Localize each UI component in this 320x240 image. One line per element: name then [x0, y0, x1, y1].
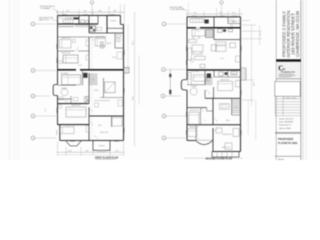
desk lower	[220, 104, 230, 110]
svg-text:DINING: DINING	[61, 88, 68, 90]
svg-text:Job no: 0206: Job no: 0206	[279, 128, 291, 130]
revision table	[275, 99, 301, 116]
fridge2 dark	[83, 73, 87, 78]
dresser right wall unit1	[236, 56, 241, 62]
svg-text:BEDROOM: BEDROOM	[222, 147, 231, 149]
svg-text:TO REMAIN: TO REMAIN	[40, 7, 51, 10]
svg-text:BEDROOM: BEDROOM	[72, 105, 81, 107]
grid bubble top right plan	[220, 1, 223, 4]
wall y124.8	[187, 124, 241, 126]
bed3	[189, 112, 199, 124]
wall x107 dark	[106, 15, 108, 33]
outer wall right main	[123, 24, 125, 140]
logo address micro lines	[279, 73, 294, 76]
row B	[162, 68, 166, 72]
stair3 side wall y115	[232, 114, 241, 116]
demising wall y27.8	[187, 27, 196, 29]
bottom dim text	[68, 151, 119, 153]
svg-text:SECOND FLOOR PLAN: SECOND FLOOR PLAN	[206, 157, 233, 160]
bed5 bottom right	[112, 118, 122, 127]
left grid bubble row A	[31, 22, 35, 26]
svg-text:PROPOSED: PROPOSED	[278, 137, 293, 141]
svg-text:8'-2": 8'-2"	[66, 11, 70, 13]
wall x111.5 bottom room	[111, 116, 113, 127]
closets on x89 wall	[86, 40, 89, 46]
wall x213 lower	[212, 98, 214, 125]
porch	[93, 141, 110, 151]
svg-text:9'-2": 9'-2"	[115, 151, 119, 153]
bath band wall y77	[214, 76, 241, 78]
svg-text:UP: UP	[92, 79, 94, 81]
right side dim text rotated	[254, 32, 263, 86]
svg-text:5'-8": 5'-8"	[85, 151, 89, 153]
bottom dimension line	[57, 151, 125, 153]
outer wall left upper	[57, 15, 59, 84]
hall wall x103.5	[103, 78, 105, 98]
kitchen2 island	[193, 75, 206, 82]
svg-text:8'-4": 8'-4"	[219, 12, 223, 14]
svg-text:BEDROOM: BEDROOM	[100, 132, 109, 134]
kitchen1 cabinets	[63, 20, 73, 24]
grid line from top bubble	[221, 4, 223, 17]
closet rects	[97, 27, 102, 30]
door arcs	[89, 37, 93, 41]
annotation right plan top	[170, 6, 186, 11]
leader	[166, 23, 186, 25]
leader top-left	[52, 9, 58, 15]
wall x228	[227, 17, 229, 24]
wall x89 segments	[88, 15, 90, 33]
right side dim lines	[247, 100, 249, 135]
right side long extension line	[134, 12, 136, 146]
hall wall y100.6	[94, 100, 110, 102]
svg-text:DINING: DINING	[195, 28, 202, 30]
bed1 right plan	[216, 42, 226, 51]
fridge2 dark	[207, 73, 211, 78]
dining table unit1	[192, 30, 205, 37]
svg-text:Company, Inc.: Company, Inc.	[281, 71, 296, 73]
leader	[166, 69, 187, 71]
kitchen2 big counter	[62, 75, 81, 85]
left grid bubble row E	[31, 136, 35, 140]
wall y33	[89, 32, 124, 34]
svg-text:BEDROOM: BEDROOM	[221, 80, 230, 82]
leader left	[51, 19, 59, 22]
svg-text:KITCHEN: KITCHEN	[191, 71, 199, 73]
svg-text:5'-2": 5'-2"	[232, 12, 236, 14]
svg-text:Scale: 1/4"=1'-0": Scale: 1/4"=1'-0"	[279, 119, 294, 121]
annotation text top-left	[40, 5, 56, 10]
svg-text:PORCH: PORCH	[98, 145, 105, 147]
bed2 right plan	[218, 81, 233, 90]
logo panel grid background	[276, 62, 300, 78]
bottom wall right	[213, 151, 241, 153]
wall y28.3 notch room	[107, 27, 124, 29]
wall y39.6	[214, 39, 241, 41]
svg-text:Date: 6/24/2002: Date: 6/24/2002	[279, 121, 294, 124]
svg-text:6'-0": 6'-0"	[45, 108, 47, 112]
outer wall bottom	[60, 140, 124, 142]
svg-text:BEDROOM: BEDROOM	[62, 38, 71, 40]
top dim text	[66, 11, 117, 13]
stair mid right plan	[205, 77, 213, 85]
annotation text left	[39, 16, 54, 21]
svg-text:Drawn by: C.I.: Drawn by: C.I.	[279, 125, 292, 127]
bath fixtures top right	[230, 19, 234, 21]
bed4	[188, 129, 198, 137]
svg-text:8'-6": 8'-6"	[113, 11, 117, 13]
bedroom2 dark bed lower	[63, 55, 78, 63]
outer wall left lower	[57, 96, 59, 125]
round table room3	[58, 105, 62, 109]
door arcs	[196, 28, 200, 32]
wall y98.5	[205, 97, 241, 99]
left grid bubble row C	[31, 94, 35, 98]
bath band fixtures unit2	[219, 72, 224, 76]
window ticks right plan	[186, 16, 241, 135]
bath fixtures mid right	[86, 101, 89, 103]
top dim extension lines	[187, 8, 240, 17]
chairs	[192, 36, 194, 38]
closet wall y111	[207, 110, 213, 112]
porch steps	[96, 149, 107, 151]
fridge	[205, 20, 209, 24]
right side extension line 3	[138, 55, 140, 105]
wall x231.7 stair3	[231, 98, 233, 115]
bath band fixtures unit1	[218, 29, 222, 33]
rounded bay left	[181, 80, 187, 90]
right column wall	[212, 141, 214, 152]
svg-text:WALLS TYP.: WALLS TYP.	[39, 18, 50, 21]
black separator bar	[276, 59, 301, 61]
leader annotation	[182, 9, 190, 13]
bottom rule	[275, 155, 301, 157]
misc tiny labels right plan	[195, 34, 238, 149]
bath2 fixtures right	[117, 35, 121, 38]
window ticks left plan	[57, 15, 125, 142]
svg-text:DINING: DINING	[191, 86, 198, 88]
sideboard	[189, 40, 197, 43]
svg-text:BEDROOM: BEDROOM	[62, 53, 71, 55]
right side extension line short	[127, 24, 129, 70]
svg-text:12'-4": 12'-4"	[254, 81, 256, 86]
svg-text:LIVING: LIVING	[195, 54, 201, 56]
wall x200.5 lower	[200, 108, 202, 125]
stair3 lower right	[232, 100, 241, 113]
open-below diagonal rect	[105, 82, 116, 93]
outer wall left bottom inset	[58, 124, 60, 126]
row E	[162, 136, 166, 140]
grid bubble top	[90, 1, 93, 4]
svg-text:KITCHEN: KITCHEN	[193, 17, 201, 19]
left grid bubbles right plan row A	[162, 22, 166, 26]
back stair appendage	[241, 68, 247, 80]
dark fixture cluster top	[90, 26, 96, 32]
info rows	[279, 119, 294, 130]
fridge1	[74, 17, 79, 19]
leader bubble A	[35, 23, 56, 25]
svg-text:21'-6": 21'-6"	[133, 40, 135, 45]
leader	[165, 95, 181, 97]
fold line left	[9, 0, 11, 160]
svg-text:BEDROOM: BEDROOM	[223, 134, 232, 136]
svg-text:6'-4": 6'-4"	[83, 11, 87, 13]
bottom wall left part	[187, 140, 195, 142]
svg-text:10'x9': 10'x9'	[195, 138, 200, 140]
leader	[166, 115, 186, 117]
stair outline upper	[206, 30, 214, 38]
leader	[166, 137, 186, 139]
bottom dim ext lines	[58, 142, 124, 156]
svg-text:CLOS: CLOS	[112, 57, 116, 59]
stair mid	[90, 74, 98, 85]
wall x71 upper rooms divider	[70, 96, 72, 104]
bath divider y23.5	[228, 23, 241, 25]
stair upper right plan	[206, 30, 214, 38]
fold line left 2	[14, 0, 16, 160]
bottom bay window	[66, 141, 81, 146]
bow window bottom	[195, 139, 212, 141]
kitchen2 cabinets	[188, 73, 191, 85]
bed2 big	[66, 107, 86, 117]
kitchen1 upper cabinets	[59, 16, 75, 18]
bookcase left wall	[188, 48, 192, 60]
top dim text	[193, 12, 236, 14]
bed4 bottom	[60, 127, 75, 134]
bottom dim right plan	[184, 157, 243, 159]
leader bubble E	[35, 137, 56, 139]
bay window left	[53, 85, 57, 96]
demising wall y70	[187, 69, 241, 71]
svg-text:BEDROOM: BEDROOM	[190, 127, 199, 129]
outer wall notch right upper	[119, 15, 121, 24]
svg-text:FIRST FLOOR PLAN: FIRST FLOOR PLAN	[95, 156, 118, 159]
bottom wall mid	[212, 140, 214, 142]
svg-text:9'x12': 9'x12'	[78, 65, 83, 67]
stamp box	[275, 82, 301, 97]
leader bubble D	[35, 115, 56, 117]
project title rotated text	[281, 10, 300, 57]
grid line from top bubble	[91, 4, 93, 15]
title block right border	[300, 0, 302, 160]
svg-text:18'-2": 18'-2"	[133, 95, 135, 100]
back stair right	[124, 68, 130, 74]
stair upper	[76, 25, 89, 28]
dresser2	[236, 81, 241, 87]
dining table round	[61, 89, 68, 96]
fold line left 3	[17, 0, 19, 160]
svg-text:PORCH: PORCH	[110, 21, 117, 23]
svg-text:KITCHEN: KITCHEN	[65, 18, 73, 20]
wall x196 bottom	[195, 125, 197, 141]
small fixtures mid	[95, 103, 99, 107]
svg-text:BEDROOM: BEDROOM	[217, 46, 226, 48]
top dim extension lines	[58, 4, 125, 24]
wall y85 kitchen2	[58, 84, 77, 86]
notch step	[120, 23, 123, 25]
revision table verticals	[274, 96, 276, 116]
mid hallway bath fixtures	[101, 42, 104, 44]
lower extension porch	[212, 152, 239, 158]
outer wall left below bay	[186, 90, 188, 141]
wall x214 segments	[213, 17, 215, 28]
svg-text:FLOOR PLANS: FLOOR PLANS	[278, 141, 297, 145]
row C	[161, 94, 165, 98]
svg-text:BEDROOM: BEDROOM	[66, 125, 75, 127]
svg-text:CLOS: CLOS	[220, 58, 224, 60]
svg-text:9'-8": 9'-8"	[98, 11, 102, 13]
wall x83 kitchen2	[82, 70, 84, 85]
double separator line	[275, 132, 301, 134]
svg-text:6'-2": 6'-2"	[260, 32, 262, 36]
dining table	[190, 88, 197, 95]
kitchen1 cabinets right plan	[190, 19, 204, 23]
nightstand	[73, 40, 76, 43]
sheet background	[0, 0, 320, 160]
top dimension line	[56, 11, 125, 13]
wall y24	[58, 23, 99, 25]
left grid bubble row B	[31, 69, 35, 73]
bottom right room furniture	[225, 143, 232, 150]
outer wall top	[58, 14, 121, 16]
leader bubble B	[35, 70, 56, 72]
wall y84.7	[187, 84, 205, 86]
wall y116	[89, 115, 124, 117]
svg-text:CAMBRIDGE, MA 02139: CAMBRIDGE, MA 02139	[295, 10, 300, 57]
wall x98	[97, 15, 99, 24]
wall x205	[204, 70, 206, 85]
wall x228 bath band	[227, 70, 229, 77]
living furniture	[192, 45, 203, 52]
logo bottom rule	[276, 78, 301, 80]
svg-text:UP: UP	[207, 81, 209, 83]
wall y103.5	[58, 103, 90, 105]
bed small top right	[95, 39, 106, 47]
hall wall y97.5	[100, 97, 124, 99]
outer sheet edge line	[302, 0, 304, 160]
svg-text:Sheet: Sheet	[278, 158, 284, 160]
wall y51	[58, 50, 75, 52]
leader bubble C	[35, 95, 50, 97]
left grid bubble row D	[31, 114, 35, 118]
top dimension line	[186, 13, 243, 15]
wall y48 bath bottom	[115, 47, 124, 49]
svg-text:BEDROOM: BEDROOM	[96, 37, 105, 39]
vertical ext line near annotation	[188, 2, 190, 11]
faint scan edge	[305, 0, 307, 160]
wall y37	[58, 36, 107, 38]
misc tiny labels left plan	[64, 22, 116, 134]
upper small rooms fixtures	[59, 97, 63, 100]
outer wall left above bay	[186, 17, 188, 80]
wall y124.6	[58, 124, 90, 126]
bedroom1 bed upper left	[60, 40, 72, 49]
wall y107.6	[187, 107, 207, 109]
sheet title	[278, 137, 297, 145]
wall y99	[58, 98, 72, 100]
wall x115 bath	[114, 33, 116, 48]
svg-text:KITCHEN: KITCHEN	[60, 73, 68, 75]
svg-text:hi: hi	[283, 67, 286, 71]
title block left border	[275, 0, 277, 160]
round side table	[59, 60, 63, 64]
svg-text:BEDROOM: BEDROOM	[190, 110, 199, 112]
demising wall y70	[58, 69, 77, 71]
svg-text:10'-4": 10'-4"	[68, 151, 73, 153]
row D	[162, 114, 166, 118]
wall x79 kitchen	[78, 15, 80, 24]
wall y26.4	[58, 26, 75, 28]
right dim rotated text	[133, 40, 135, 100]
svg-text:CL: CL	[204, 120, 206, 122]
dresser1	[230, 43, 236, 48]
bath1 fixtures	[81, 20, 84, 23]
side dim line with dark marks	[169, 70, 171, 97]
room labels left plan	[60, 18, 117, 148]
outer wall right	[240, 17, 242, 152]
outer wall top	[187, 16, 241, 18]
room labels right plan	[190, 17, 237, 136]
bay mullion ticks	[181, 84, 183, 86]
svg-text:7'-6": 7'-6"	[193, 12, 197, 14]
